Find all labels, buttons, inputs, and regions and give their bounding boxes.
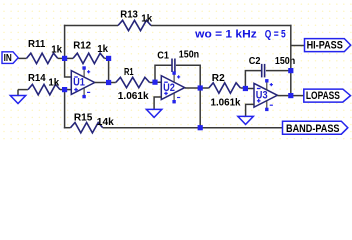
wire R11 to node A (58, 57, 65, 59)
wire node B vertical (108, 58, 110, 82)
wire U2 output down to BAND-PASS row (199, 88, 201, 128)
capacitor C1 (155, 65, 172, 82)
wire R12 to node B (104, 57, 108, 59)
svg-text:R2: R2 (212, 73, 225, 84)
svg-text:1k: 1k (48, 78, 59, 89)
op-amp U1 (71, 66, 94, 98)
wire R2 to U3 inverting input (241, 87, 246, 89)
svg-text:R1: R1 (124, 67, 134, 78)
resistor R13 (118, 20, 151, 30)
node B junction bottom (106, 80, 111, 85)
wire U1 output to node B (95, 82, 109, 84)
svg-text:R12: R12 (73, 40, 91, 51)
wire R14 to U1 noninverting input (60, 89, 72, 91)
svg-text:R14: R14 (28, 73, 46, 84)
LOPASS junction (288, 93, 293, 98)
svg-text:U2: U2 (163, 82, 175, 94)
U2 inverting input junction (152, 80, 157, 85)
svg-text:1.061k: 1.061k (118, 91, 149, 102)
svg-text:150n: 150n (179, 50, 199, 61)
svg-text:R15: R15 (74, 112, 93, 123)
output tag BAND-PASS (283, 121, 348, 134)
op-amp U3 (254, 79, 277, 111)
U2 output junction (198, 85, 203, 90)
svg-text:C2: C2 (249, 56, 261, 67)
input tag IN (2, 52, 18, 64)
svg-text:C1: C1 (157, 51, 169, 62)
svg-text:14k: 14k (97, 117, 114, 128)
ground G2 (154, 97, 162, 109)
node B junction top (106, 56, 111, 61)
svg-text:150n: 150n (275, 56, 295, 67)
svg-text:R11: R11 (28, 39, 46, 50)
wire left vertical down to node A (64, 25, 66, 59)
output tag HI-PASS (305, 39, 351, 52)
svg-text:BAND-PASS: BAND-PASS (286, 123, 340, 135)
wire to LOPASS tag (291, 95, 304, 97)
U3 inverting input junction (243, 86, 248, 91)
svg-text:1k: 1k (141, 14, 152, 25)
wire node A down to U1 inverting input (65, 58, 72, 77)
node A junction (62, 56, 67, 61)
wire node C down to R15 row (64, 90, 66, 129)
wire BAND-PASS row left (64, 127, 71, 129)
wire BAND-PASS row right (103, 127, 283, 129)
svg-text:HI-PASS: HI-PASS (307, 40, 343, 52)
svg-text:IN: IN (4, 53, 12, 64)
wire R1 to U2 inverting input (150, 81, 162, 83)
wire right vertical (290, 25, 292, 96)
wire U3 output (277, 95, 290, 97)
BAND-PASS junction (198, 125, 203, 130)
svg-text:wo = 1 kHz: wo = 1 kHz (194, 28, 257, 40)
svg-text:LOPASS: LOPASS (306, 90, 340, 102)
wire IN tag to R11 (18, 57, 26, 59)
resistor R11 (27, 53, 58, 63)
wire top feedback left segment (64, 25, 118, 27)
C2 right junction (288, 68, 293, 73)
wire top feedback right segment (151, 25, 292, 27)
svg-text:R13: R13 (120, 10, 138, 21)
resistor R15 (71, 123, 103, 133)
node C junction (62, 87, 67, 92)
output tag LOPASS (304, 89, 351, 102)
ground G3 (246, 104, 255, 116)
wire to HI-PASS tag (291, 45, 305, 47)
ground G1 (17, 90, 19, 96)
resistor R12 (65, 57, 73, 59)
resistor R2 (200, 87, 209, 89)
svg-text:U1: U1 (73, 77, 85, 89)
op-amp U2 (161, 71, 184, 103)
capacitor C2 (245, 71, 261, 89)
resistor R14 (18, 89, 28, 91)
svg-text:Q = 5: Q = 5 (265, 28, 286, 40)
svg-text:1k: 1k (51, 44, 62, 55)
svg-text:1.061k: 1.061k (211, 98, 241, 109)
svg-text:1k: 1k (97, 44, 108, 55)
wire U2 output to node D (185, 87, 201, 89)
svg-text:U3: U3 (256, 89, 268, 101)
resistor R1 (109, 82, 116, 84)
